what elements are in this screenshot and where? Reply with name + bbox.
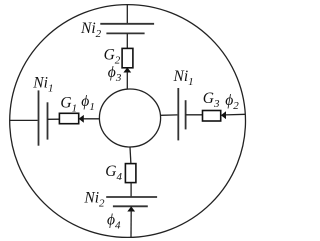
MMF source Ni2 bottom long plate bbox=[106, 196, 157, 198]
permeance box G1 bbox=[59, 113, 78, 123]
wire top branch middle bbox=[126, 33, 128, 48]
wire bottom branch middle bbox=[130, 183, 132, 197]
MMF source Ni2 top short plate bbox=[106, 32, 144, 34]
MMF source Ni1 left short plate bbox=[47, 102, 49, 139]
permeance box G2 bbox=[122, 48, 133, 67]
wire bottom branch upper bbox=[129, 147, 132, 164]
wire left branch middle bbox=[48, 118, 60, 120]
wire right branch outer bbox=[226, 113, 246, 116]
wire left branch outer bbox=[10, 119, 38, 121]
permeance box G4 bbox=[125, 164, 135, 183]
permeance box G3 bbox=[203, 111, 221, 122]
wire top branch upper bbox=[126, 5, 128, 24]
flux arrowhead phi1 (left) bbox=[79, 115, 84, 123]
inner center node circle bbox=[99, 89, 160, 147]
MMF source Ni1 right long plate bbox=[177, 88, 179, 140]
outer magnetic yoke circle bbox=[10, 5, 246, 238]
wire right branch inner bbox=[161, 114, 178, 116]
wire top branch lower bbox=[126, 72, 128, 90]
flux arrowhead phi2 (left) bbox=[221, 111, 226, 119]
wire left branch inner bbox=[83, 118, 99, 120]
MMF source Ni2 bottom short plate bbox=[113, 205, 148, 207]
MMF source Ni2 top long plate bbox=[100, 23, 154, 25]
flux arrowhead phi4 (up) bbox=[127, 206, 135, 211]
wire bottom branch lower bbox=[130, 211, 132, 238]
flux arrowhead phi3 (up) bbox=[123, 67, 131, 72]
MMF source Ni1 right short plate bbox=[185, 100, 187, 129]
MMF source Ni1 left long plate bbox=[38, 90, 40, 145]
wire right branch middle bbox=[186, 114, 203, 116]
